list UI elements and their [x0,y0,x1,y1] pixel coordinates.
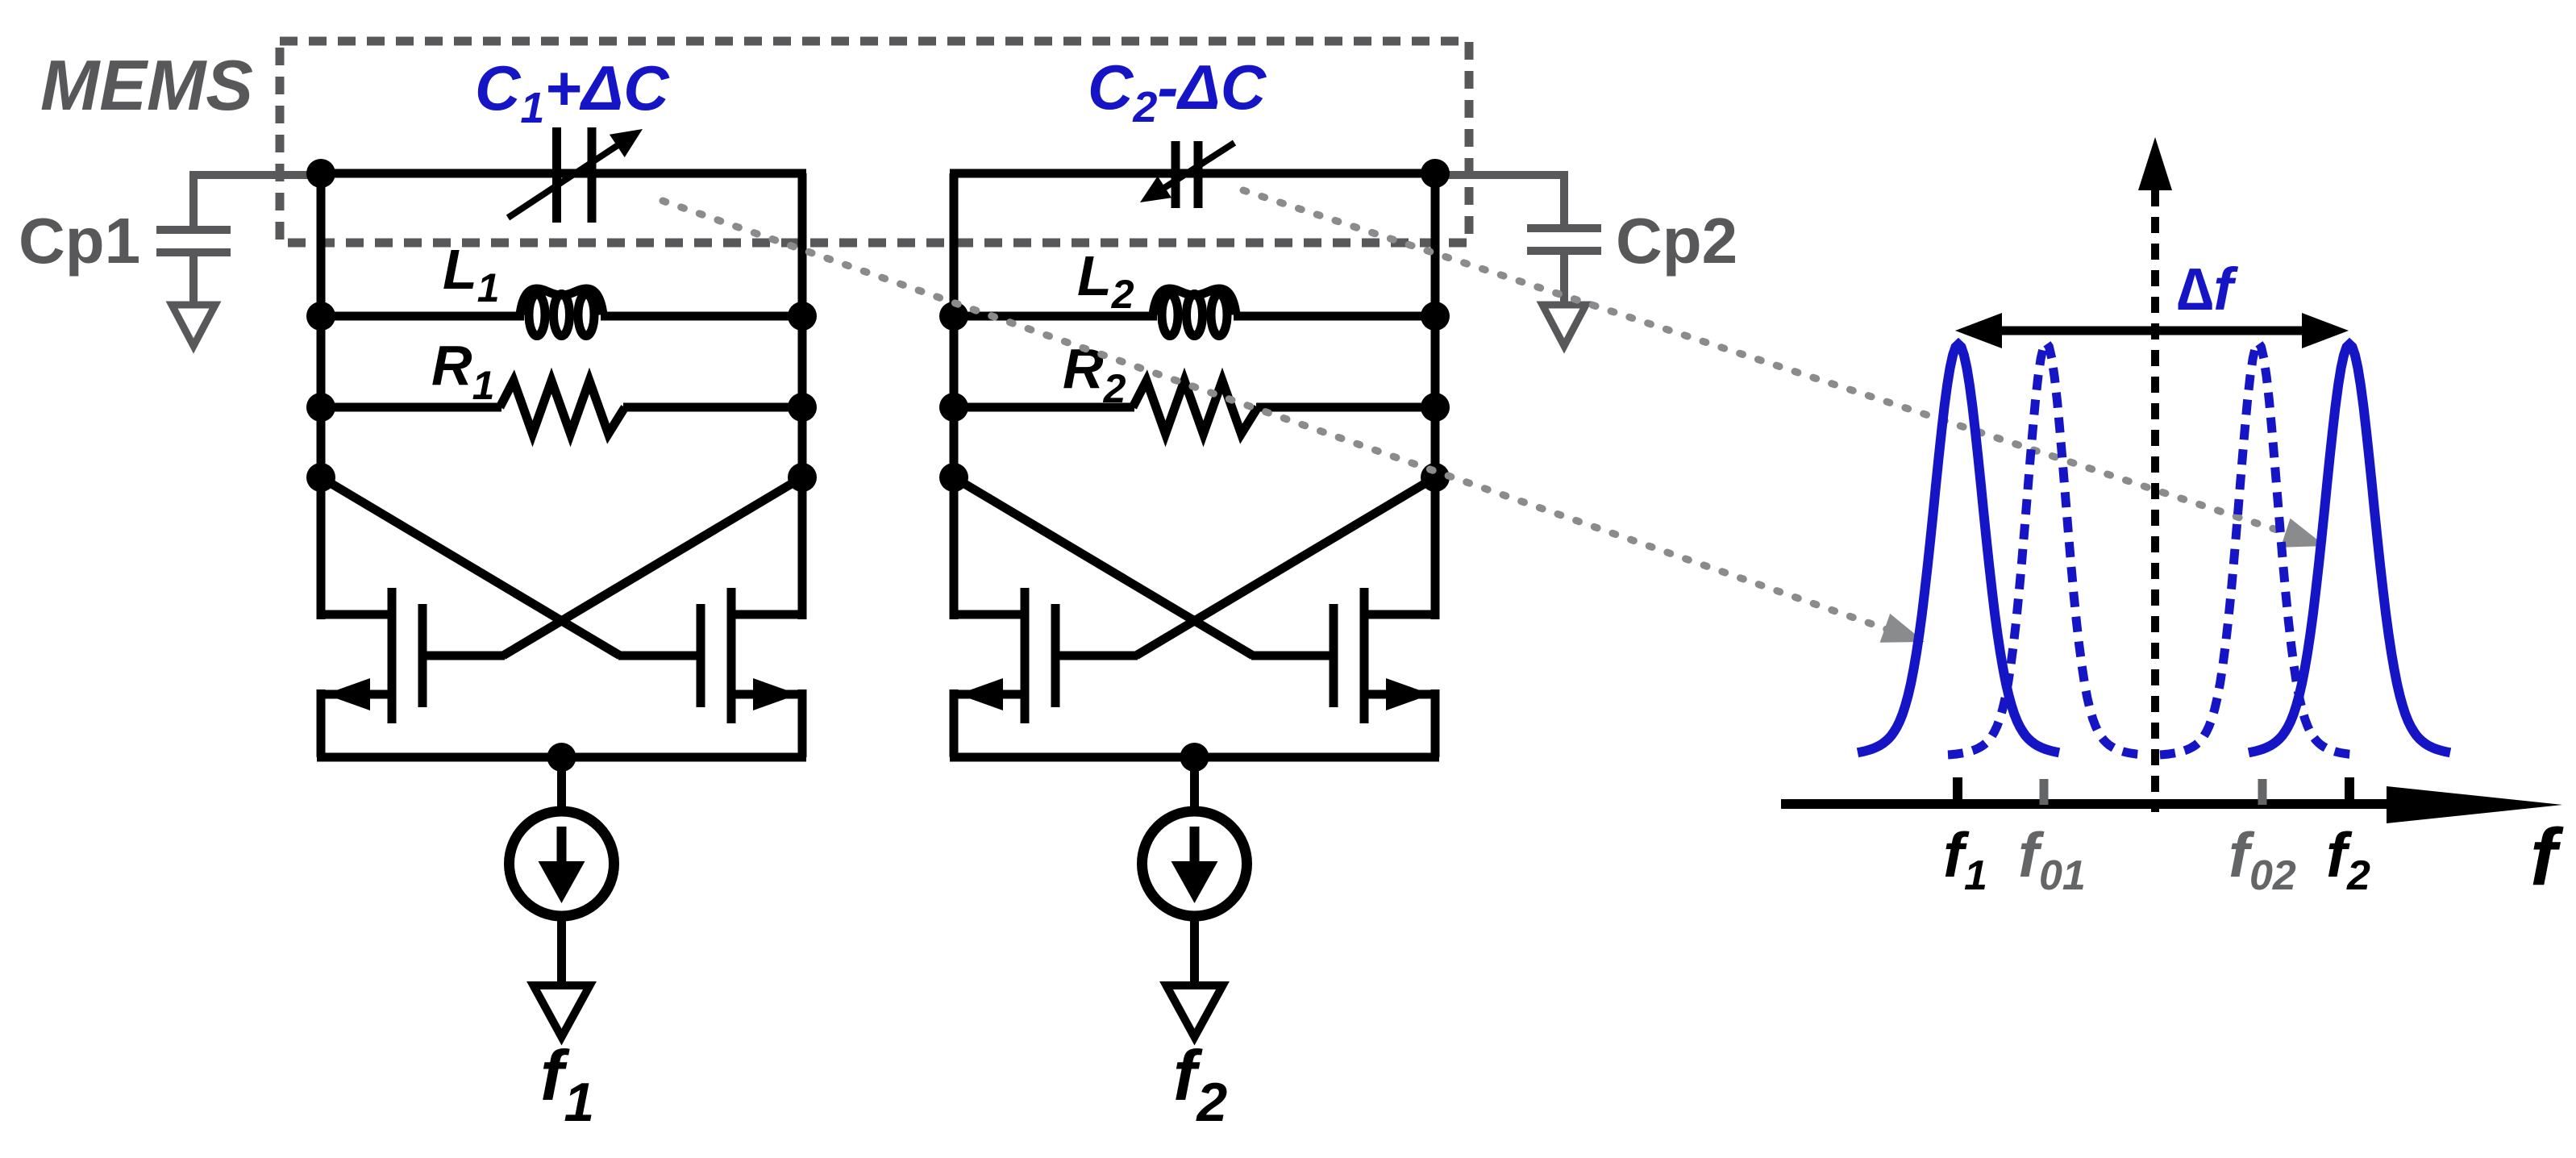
ground arrow output osc1 [534,985,590,1037]
wire bottom rail osc1 [317,753,806,762]
transistor M2 (osc1 right NMOS) [701,588,806,723]
wire tail osc1 [557,757,566,811]
spectrum peak f01 (dashed) [1948,343,2145,755]
spectrum x axis (f) [1781,786,2562,823]
wire right rail osc2 [1431,173,1440,619]
spectrum peak f2 (solid) [2249,344,2450,752]
wire left rail osc2 [950,173,959,619]
svg-text:Cp2: Cp2 [1616,205,1737,277]
wire below current source osc1 [557,916,566,985]
resistor R2 [954,381,1435,434]
dotted arrow C2 to spectrum f2 [1243,190,2325,548]
wire bottom rail osc2 [950,753,1439,762]
wire below current source osc2 [1190,916,1199,985]
dotted arrow C1 to spectrum f1 [663,201,1925,643]
wire cross-couple osc2 [954,477,1435,656]
svg-text:C2-ΔC: C2-ΔC [1088,52,1267,131]
wire cross-couple osc1 [321,477,802,656]
capacitor C2 varactor (MEMS) [1140,141,1234,208]
spectrum peak f02 (dashed) [2160,343,2357,755]
junction nodes osc2 [939,159,1450,772]
spectrum vertical dashed axis [2138,137,2172,812]
wire top rail osc2 [950,169,1439,178]
tick f2 [2345,777,2354,804]
svg-text:Cp1: Cp1 [19,205,140,277]
ground arrow output osc2 [1167,985,1223,1037]
resistor R1 [321,381,802,434]
current source I2 [1142,811,1247,916]
current source I1 [510,811,614,916]
svg-text:∆f: ∆f [2177,256,2238,323]
tick f02 [2258,779,2267,805]
inductor L1 [321,289,802,336]
transistor M1 (osc1 left NMOS) [317,588,422,723]
spectrum peak f1 (solid) [1858,344,2059,752]
wire tail osc2 [1190,757,1199,811]
capacitor C1 varactor (MEMS) [508,127,643,223]
ground (Cp2) [1542,305,1586,346]
transistor M2 (osc2 right NMOS) [1334,588,1439,723]
transistor M1 (osc2 left NMOS) [950,588,1055,723]
tick f1 [1953,777,1962,804]
capacitor Cp2 [1434,175,1601,305]
inductor L2 [954,289,1435,336]
capacitor Cp1 [156,175,323,305]
wire top rail osc1 [317,169,806,178]
junction nodes osc1 [306,159,817,772]
wire left rail osc1 [317,173,326,619]
svg-text:C1+ΔC: C1+ΔC [475,52,670,132]
ground (Cp1) [172,305,215,346]
wire right rail osc1 [798,173,807,619]
delta-f arrow [1955,313,2349,348]
tick f01 [2040,779,2049,805]
svg-text:MEMS: MEMS [40,45,253,125]
MEMS dashed box [280,41,1469,243]
